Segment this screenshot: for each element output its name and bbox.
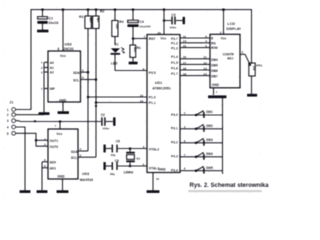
svg-text:4k7: 4k7	[96, 18, 100, 24]
svg-text:5: 5	[7, 132, 9, 136]
U3 pin AD0	[42, 161, 48, 163]
connector pin 1	[12, 108, 16, 112]
ground pin 4	[20, 190, 31, 193]
svg-text:ADJ: ADJ	[227, 56, 234, 60]
wire AD pins to ground	[41, 162, 43, 190]
connector pin 3	[12, 119, 16, 123]
svg-text:P3.7: P3.7	[171, 37, 178, 41]
U2 pin WP	[44, 88, 48, 90]
svg-text:C2: C2	[101, 113, 105, 117]
svg-text:10: 10	[156, 177, 160, 181]
svg-text:3: 3	[184, 125, 186, 129]
svg-text:3: 3	[242, 50, 244, 54]
svg-text:US1: US1	[155, 81, 162, 85]
svg-text:7: 7	[55, 124, 57, 128]
svg-text:8: 8	[184, 167, 186, 171]
resistor R1 (reset pulldown)	[132, 39, 134, 46]
svg-text:19: 19	[183, 72, 187, 76]
svg-text:100n: 100n	[169, 26, 176, 30]
svg-text:9: 9	[143, 67, 145, 71]
svg-text:AT89C2051: AT89C2051	[152, 86, 171, 90]
svg-text:A2: A2	[50, 71, 54, 75]
ground U3 GND	[57, 190, 69, 193]
svg-text:11: 11	[183, 34, 187, 38]
svg-text:P1.5: P1.5	[171, 61, 178, 65]
svg-text:P3.2: P3.2	[171, 141, 178, 145]
svg-text:100n: 100n	[102, 127, 109, 131]
wire U2 Vcc stem	[62, 10, 64, 51]
svg-text:Rys. 2. Schemat sterownika: Rys. 2. Schemat sterownika	[190, 183, 270, 189]
U3 pin SCL	[78, 156, 96, 158]
svg-text:P3.1: P3.1	[171, 127, 178, 131]
wire U3 OUT1	[36, 139, 48, 141]
U1 Vcc pin 20	[163, 10, 165, 35]
U2 pin A1	[44, 67, 48, 69]
wire pin 5 to U3 OUT0	[16, 133, 48, 146]
wire Vcc top rail	[31, 9, 252, 11]
ground U1 GND	[147, 190, 160, 193]
svg-text:SW3: SW3	[206, 138, 213, 142]
ground below R1	[129, 62, 138, 65]
svg-text:R1: R1	[137, 46, 141, 50]
svg-text:LCD: LCD	[227, 22, 235, 26]
svg-text:8: 8	[58, 47, 60, 51]
svg-text:1: 1	[41, 61, 43, 65]
ground PR1	[247, 94, 257, 97]
svg-text:R4: R4	[119, 20, 123, 24]
svg-text:A1: A1	[50, 66, 54, 70]
svg-text:10u/16: 10u/16	[48, 21, 58, 25]
svg-text:4k7: 4k7	[88, 18, 92, 24]
LCD display module	[210, 34, 240, 88]
capacitor C1 plates	[38, 17, 48, 19]
svg-text:Vcc: Vcc	[221, 36, 227, 40]
capacitor C4 10u/16V (reset)	[132, 10, 134, 39]
svg-text:2: 2	[184, 111, 186, 115]
svg-text:P1.7: P1.7	[171, 72, 178, 76]
svg-text:3: 3	[41, 70, 43, 74]
node RST junction	[132, 37, 135, 40]
wire pin 2 to ground	[16, 114, 44, 116]
svg-text:DB7: DB7	[211, 75, 218, 79]
svg-text:P1.0: P1.0	[149, 96, 156, 100]
svg-text:Q1: Q1	[136, 156, 140, 160]
svg-text:5: 5	[205, 44, 207, 48]
switch SW4	[180, 156, 223, 158]
svg-text:4: 4	[143, 145, 145, 149]
node dot C1/rail	[41, 8, 44, 11]
svg-text:14: 14	[203, 72, 207, 76]
svg-text:RS: RS	[211, 41, 216, 45]
svg-text:1: 1	[7, 108, 9, 112]
U2 pin A0	[44, 61, 48, 63]
svg-text:33p: 33p	[110, 153, 115, 157]
svg-text:4: 4	[7, 126, 9, 130]
svg-text:4: 4	[205, 39, 207, 43]
ground AD pins	[37, 190, 48, 193]
svg-text:17: 17	[183, 61, 187, 65]
svg-text:Vcc: Vcc	[56, 132, 62, 136]
svg-text:SW5: SW5	[206, 166, 213, 170]
svg-text:3: 3	[7, 119, 9, 123]
svg-text:SW2: SW2	[206, 124, 213, 128]
svg-text:24C02: 24C02	[64, 47, 74, 51]
switch SW1	[180, 114, 223, 116]
svg-text:2: 2	[220, 31, 222, 35]
svg-text:P3.3: P3.3	[171, 155, 178, 159]
wire P1.0 bus line	[88, 96, 147, 98]
wire P1.1 bus line	[96, 102, 147, 104]
svg-text:P1.1: P1.1	[149, 101, 156, 105]
wire Vcc rail to connector pin 1	[16, 10, 31, 110]
svg-text:1: 1	[144, 35, 146, 39]
IC U2 24C02	[48, 51, 81, 102]
svg-text:2: 2	[44, 143, 46, 147]
resistor R2 (SCL pull-up)	[95, 10, 97, 158]
svg-text:20: 20	[157, 31, 161, 35]
svg-text:R2: R2	[100, 10, 104, 14]
U2 pin SDA	[81, 71, 89, 73]
IC U3 MAX518	[48, 129, 78, 179]
svg-text:P3.0: P3.0	[171, 113, 178, 117]
connector pin 5	[12, 131, 16, 135]
wire P3.7 to LCD E	[180, 37, 210, 39]
svg-text:5: 5	[82, 68, 84, 72]
svg-text:33p: 33p	[110, 172, 115, 176]
svg-text:12: 12	[140, 93, 144, 97]
svg-text:7: 7	[41, 87, 43, 91]
ground LCD GND	[208, 95, 227, 98]
svg-text:MAX518: MAX518	[80, 178, 93, 182]
svg-text:P3.5: P3.5	[149, 71, 156, 75]
wire pin 4 to ground	[16, 127, 25, 190]
wire switch common rail	[222, 98, 224, 174]
svg-text:13: 13	[140, 99, 144, 103]
wire P1.3 to LCD R/W	[180, 47, 210, 49]
wire U2 address pins to ground	[43, 62, 45, 112]
svg-text:DISPLAY: DISPLAY	[226, 27, 242, 31]
svg-text:P1.2: P1.2	[171, 42, 178, 46]
wire P1.4 to LCD DB4	[180, 58, 210, 60]
ground below C1	[37, 30, 49, 33]
wire P1.5 to LCD DB5	[180, 63, 210, 65]
svg-text:5: 5	[143, 162, 145, 166]
svg-text:US3: US3	[82, 172, 89, 176]
capacitor C3 100n	[163, 19, 166, 22]
wire pin 3 supply line	[16, 120, 101, 123]
node U3 Vcc on supply line	[59, 120, 62, 123]
svg-text:6: 6	[205, 34, 207, 38]
svg-text:OUT1: OUT1	[50, 139, 59, 143]
U3 pin AD1	[42, 167, 48, 169]
caption underline bar	[188, 190, 262, 193]
svg-text:7: 7	[184, 153, 186, 157]
svg-text:2: 2	[7, 113, 9, 117]
svg-text:2: 2	[41, 66, 43, 70]
svg-text:6: 6	[82, 76, 84, 80]
svg-text:A0: A0	[50, 61, 54, 65]
switch SW2	[180, 128, 223, 130]
wire right rail down to PR1	[251, 10, 253, 63]
svg-text:SDA: SDA	[73, 71, 80, 75]
U3 pin SDA	[78, 150, 88, 152]
ground U2 address pins	[39, 112, 50, 115]
wire RST node	[133, 38, 147, 40]
svg-text:SCL: SCL	[71, 156, 77, 160]
svg-text:R/W: R/W	[211, 46, 218, 50]
resistor R4 (LED series)	[114, 10, 116, 45]
svg-text:RST: RST	[149, 37, 157, 41]
svg-text:AD1: AD1	[50, 167, 57, 171]
wire D1 cathode to P3.5	[115, 55, 147, 71]
svg-text:3: 3	[80, 153, 82, 157]
svg-text:C1: C1	[49, 16, 54, 20]
svg-text:4: 4	[80, 147, 82, 151]
svg-text:C3: C3	[171, 13, 175, 17]
svg-text:6: 6	[184, 139, 186, 143]
svg-text:GND: GND	[158, 168, 166, 172]
svg-text:WP: WP	[50, 87, 56, 91]
svg-text:GND: GND	[59, 98, 67, 102]
svg-text:11: 11	[203, 55, 207, 59]
svg-text:P1.6: P1.6	[171, 66, 178, 70]
svg-text:1: 1	[216, 90, 218, 94]
wire P1.7 to LCD DB7	[180, 75, 210, 77]
node dot U2 Vcc/rail	[62, 8, 65, 11]
crystal Q1 12MHz	[129, 149, 131, 152]
svg-text:R3: R3	[79, 15, 83, 19]
svg-text:SCL: SCL	[73, 79, 79, 83]
svg-text:6: 6	[44, 164, 46, 168]
wire P1.2 to LCD RS	[180, 42, 210, 44]
IC U1 AT89C2051	[147, 35, 180, 173]
svg-text:D1: D1	[114, 43, 118, 47]
svg-text:12MHz: 12MHz	[123, 170, 134, 174]
svg-text:P3.4: P3.4	[171, 169, 178, 173]
wire P1.6 to LCD DB6	[180, 69, 210, 71]
U2 pin A2	[44, 71, 48, 73]
svg-text:15: 15	[183, 44, 187, 48]
svg-text:OUT0: OUT0	[50, 145, 59, 149]
svg-text:Vcc: Vcc	[60, 54, 66, 58]
svg-text:12: 12	[203, 61, 207, 65]
svg-text:DB4: DB4	[211, 58, 218, 62]
svg-text:GND: GND	[212, 83, 220, 87]
svg-text:1: 1	[44, 137, 46, 141]
svg-text:18: 18	[183, 66, 187, 70]
svg-text:SDA: SDA	[71, 150, 78, 154]
U2 pin SCL	[81, 79, 97, 81]
svg-text:14: 14	[183, 39, 187, 43]
svg-text:13: 13	[203, 66, 207, 70]
svg-text:P1.4: P1.4	[171, 55, 178, 59]
connector pin 4	[12, 125, 16, 129]
capacitor C1 10u/16	[42, 10, 44, 17]
ground U2 GND	[58, 111, 70, 114]
svg-text:Z1: Z1	[10, 101, 14, 105]
switch SW3	[180, 142, 223, 144]
svg-text:16: 16	[183, 55, 187, 59]
node on SCL vertical	[95, 105, 97, 107]
svg-text:Vcc: Vcc	[160, 37, 166, 41]
svg-text:PR1: PR1	[256, 64, 262, 68]
svg-text:10u/16V: 10u/16V	[139, 25, 152, 29]
svg-text:SW1: SW1	[206, 110, 213, 114]
svg-text:SW4: SW4	[206, 152, 213, 156]
svg-text:DB6: DB6	[211, 69, 218, 73]
resistor R3 (SDA pull-up)	[87, 10, 89, 151]
switch SW5	[180, 170, 223, 172]
LCD Vcc pin 2	[223, 10, 225, 35]
U3 Vcc stem pin 7	[59, 122, 61, 130]
svg-text:P1.3: P1.3	[171, 46, 178, 50]
svg-text:GND: GND	[57, 175, 65, 179]
svg-text:C4: C4	[140, 20, 144, 24]
connector pin 2	[12, 113, 16, 117]
svg-text:XTAL2: XTAL2	[149, 148, 160, 152]
svg-text:5: 5	[44, 158, 46, 162]
svg-text:AD0: AD0	[50, 161, 57, 165]
svg-text:510: 510	[115, 24, 119, 30]
potentiometer PR1	[249, 63, 255, 76]
svg-text:DB5: DB5	[211, 63, 218, 67]
svg-text:C5: C5	[116, 139, 120, 143]
